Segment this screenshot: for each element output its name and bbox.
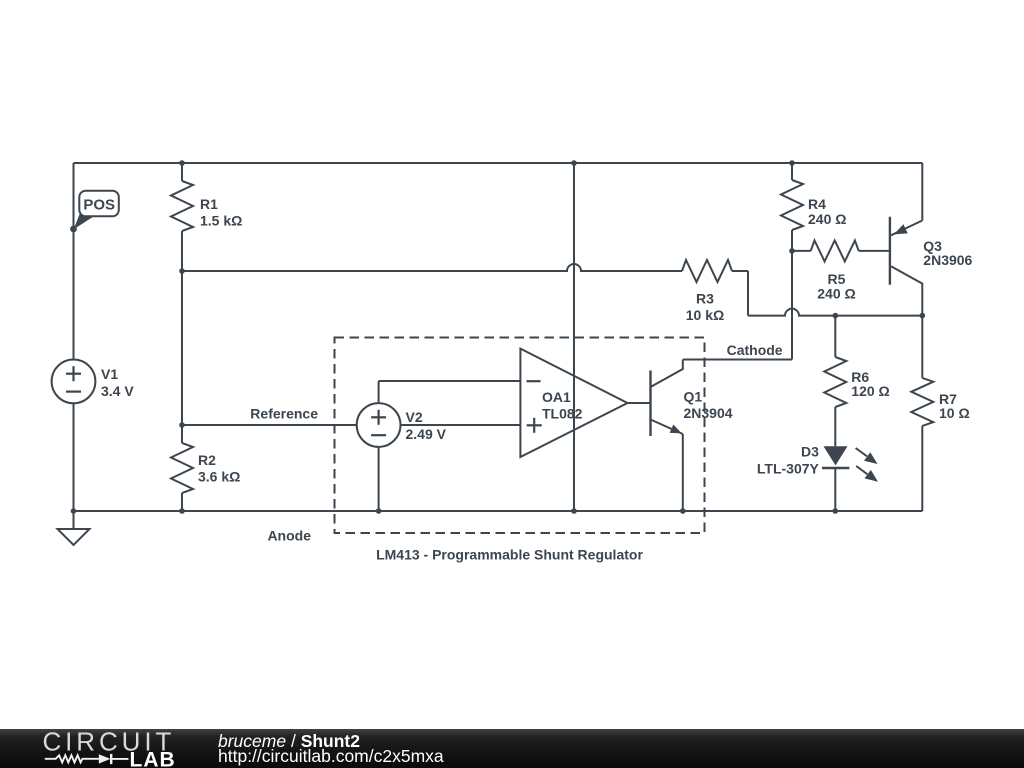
svg-text:Reference: Reference — [250, 406, 318, 422]
svg-text:10 kΩ: 10 kΩ — [686, 307, 724, 323]
svg-text:Cathode: Cathode — [727, 342, 783, 358]
svg-text:R1: R1 — [200, 196, 218, 212]
svg-text:R4: R4 — [808, 196, 826, 212]
svg-text:3.4 V: 3.4 V — [101, 383, 134, 399]
svg-text:POS: POS — [83, 197, 115, 214]
svg-text:120 Ω: 120 Ω — [851, 383, 889, 399]
svg-text:Q1: Q1 — [684, 389, 703, 405]
svg-text:2.49 V: 2.49 V — [406, 426, 447, 442]
svg-text:http://circuitlab.com/c2x5mxa: http://circuitlab.com/c2x5mxa — [218, 746, 444, 766]
svg-text:3.6 kΩ: 3.6 kΩ — [198, 469, 240, 485]
svg-text:TL082: TL082 — [542, 406, 583, 422]
svg-text:2N3904: 2N3904 — [684, 405, 733, 421]
svg-text:Anode: Anode — [267, 528, 311, 544]
svg-text:LAB: LAB — [130, 748, 176, 768]
svg-text:LTL-307Y: LTL-307Y — [757, 461, 820, 477]
svg-text:D3: D3 — [801, 444, 819, 460]
svg-text:10 Ω: 10 Ω — [939, 405, 970, 421]
svg-text:V1: V1 — [101, 366, 118, 382]
svg-text:R3: R3 — [696, 291, 714, 307]
svg-text:1.5 kΩ: 1.5 kΩ — [200, 213, 242, 229]
svg-text:LM413 - Programmable Shunt Reg: LM413 - Programmable Shunt Regulator — [376, 547, 643, 563]
svg-text:V2: V2 — [406, 409, 423, 425]
svg-text:2N3906: 2N3906 — [923, 252, 972, 268]
svg-text:240 Ω: 240 Ω — [808, 211, 846, 227]
svg-text:R2: R2 — [198, 452, 216, 468]
svg-text:OA1: OA1 — [542, 389, 571, 405]
svg-text:240 Ω: 240 Ω — [817, 286, 855, 302]
